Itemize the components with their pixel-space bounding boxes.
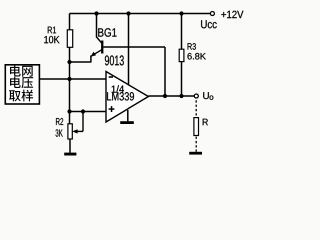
resistor R2 [68,124,72,139]
node plus wire-R1 column [67,109,71,113]
wire collector drop [96,14,98,38]
label R3 [188,43,192,49]
node R3-rail [179,11,183,15]
node R3-output [179,94,183,98]
label 6.8K [187,53,191,60]
label BG1 [98,28,103,36]
node collector-rail [94,11,98,15]
resistor R3 [179,49,184,61]
wire +12V rail [70,13,211,15]
label +12V [221,12,226,17]
wire R3 top lead [181,14,183,50]
wire junction down to R2 [69,62,71,124]
ground U1 [120,121,134,124]
label 电压 [10,77,21,88]
node Vcc pin-rail [126,11,130,15]
label R [203,119,208,125]
terminal Uo [194,94,198,98]
wire R2 bottom lead [69,139,71,153]
label 电网 [10,65,21,76]
wire plus input [70,111,107,113]
wire box to inverting input [39,78,106,80]
wire R1 top lead [69,14,71,31]
wire output [148,95,194,97]
wire emitter vertical stub [90,56,92,63]
ground R load [189,152,202,155]
transistor BG1 collector [97,37,102,43]
node box wire-R1 column [67,77,71,81]
label R2 [56,118,60,125]
node plus wire-wiper [81,109,85,113]
block voltage-sampling box [5,65,39,104]
wire dashed load bottom [195,137,197,152]
node feedback-output [163,94,167,98]
label 1/4 [112,86,116,93]
U1 ground pin [127,110,129,122]
wire dashed load top [195,100,197,117]
label R1 [48,27,52,34]
label 取样 [9,90,21,101]
transistor BG1 base bar [101,41,103,54]
wire V+ pin drop [128,14,130,86]
label 9013 [105,55,109,65]
U1 inverting input minus sign [109,76,113,78]
R2 wiper arrow [82,112,84,132]
op-amp U1 1/4 LM339 triangle [106,72,148,123]
label Uo [203,92,209,99]
transistor BG1 emitter with arrow [91,50,102,56]
wire feedback vertical segment [164,47,166,96]
wire emitter horizontal segment [70,61,91,63]
node R1-emitter junction [67,60,71,64]
wire base horizontal segment [103,46,165,48]
label 10K [44,36,48,43]
wire R1 bottom lead [69,47,71,62]
U1 non-inverting input plus sign [109,108,115,110]
terminal +12V [210,12,214,16]
label Ucc [201,20,206,28]
ground R2 [64,153,76,156]
label LM339 [107,92,111,100]
resistor R load [194,118,199,136]
resistor R1 [67,30,72,48]
label 3K [56,129,59,136]
wire R3 bottom lead [181,62,183,96]
